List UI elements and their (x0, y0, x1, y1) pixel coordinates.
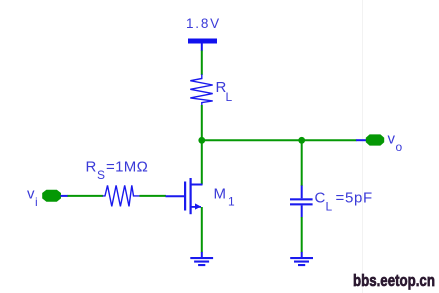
wire source to ground (201, 207, 203, 253)
pin stub of input port (61, 195, 69, 197)
svg-text:L: L (226, 90, 233, 104)
pin stub of output port (356, 139, 367, 141)
svg-text:bbs.eetop.cn: bbs.eetop.cn (353, 272, 435, 291)
label v_o (388, 131, 403, 155)
svg-text:=5pF: =5pF (336, 190, 373, 207)
capacitor C_L (290, 186, 313, 218)
node B junction dot (capacitor tap) (298, 137, 305, 144)
label C_L=5pF (315, 190, 373, 214)
svg-text:1.8V: 1.8V (186, 16, 221, 31)
watermark bbs.eetop.cn (353, 272, 435, 291)
ground (below M1 source) (190, 252, 213, 266)
svg-text:v: v (388, 131, 396, 148)
label v_i (27, 185, 38, 209)
node A junction dot (drain node) (198, 137, 205, 144)
svg-text:M: M (214, 185, 227, 202)
input port pad v_i (42, 190, 61, 202)
svg-text:C: C (315, 190, 326, 207)
svg-text:S: S (97, 168, 105, 182)
wire node A to drain (201, 140, 203, 185)
wire v_i pad to R_S (68, 195, 104, 197)
label M_1 (214, 185, 236, 208)
wire node B to C_L (301, 140, 303, 186)
svg-text:=1MΩ: =1MΩ (106, 159, 148, 176)
ground (below C_L) (290, 252, 313, 266)
resistor R_L (190, 74, 212, 105)
label R_L (216, 79, 233, 104)
transistor M1 (NMOS) (166, 178, 203, 214)
faint page divider line (362, 0, 364, 293)
wire node A to node B (horizontal output rail) (202, 139, 357, 141)
svg-text:o: o (396, 140, 403, 154)
wire R_S to gate (140, 195, 167, 197)
output port pad v_o (366, 134, 384, 145)
svg-text:i: i (35, 195, 38, 209)
wire C_L to ground (301, 217, 303, 253)
svg-text:1: 1 (228, 195, 235, 209)
wire VDD to R_L (201, 51, 203, 76)
power supply label 1.8V (186, 16, 221, 31)
power supply symbol VDD bar (188, 39, 217, 52)
svg-text:v: v (27, 185, 35, 202)
svg-text:R: R (86, 159, 97, 176)
label R_S=1MOhm (86, 159, 149, 183)
resistor R_S (103, 185, 140, 206)
svg-text:L: L (326, 200, 333, 214)
wire R_L to node A (201, 105, 203, 140)
